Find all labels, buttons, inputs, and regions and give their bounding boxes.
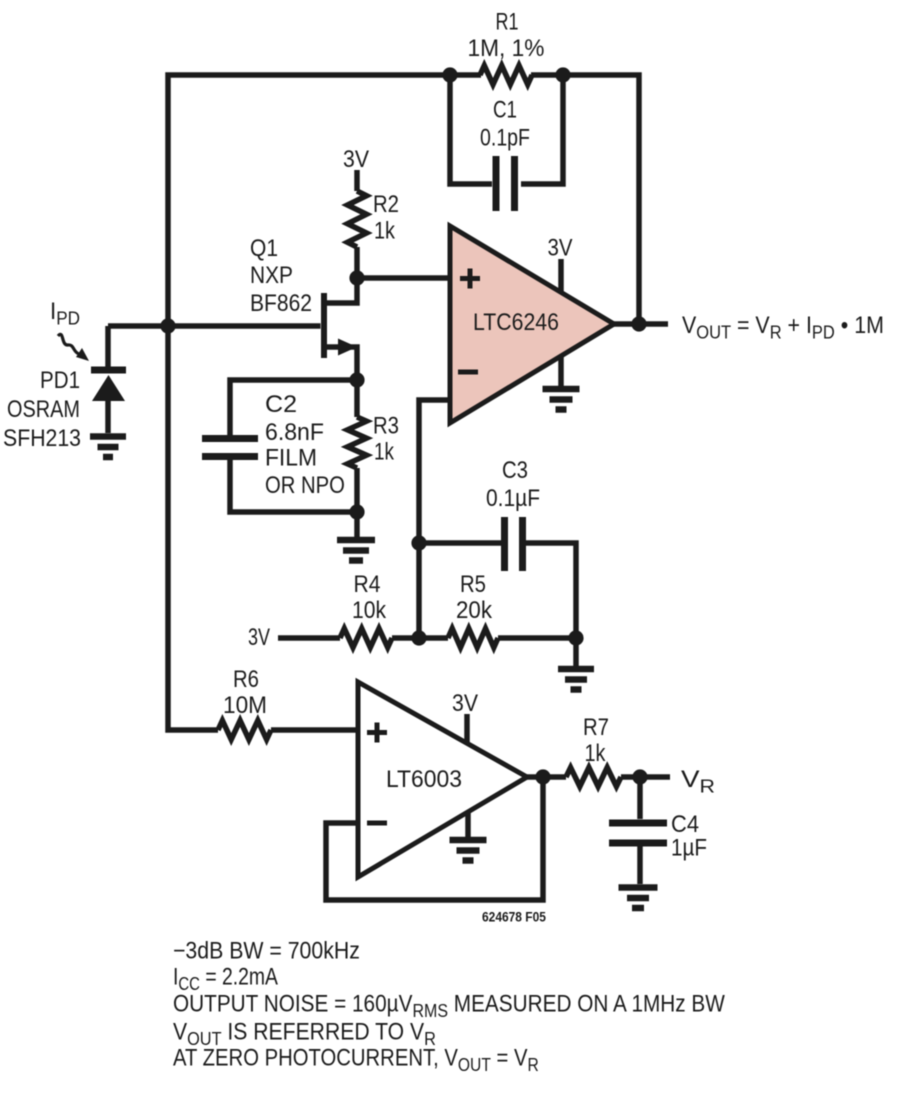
wire [357,275,450,281]
label LTC6246 [473,308,559,336]
svg-text:624678 F05: 624678 F05 [482,909,546,925]
resistor R4 [340,629,392,648]
svg-text:R5: R5 [460,570,486,597]
svg-text:0.1pF: 0.1pF [480,124,530,151]
svg-text:R7: R7 [583,713,609,740]
wire [108,323,168,329]
photodiode PD1 [91,370,126,433]
label 3V R2 [343,145,370,173]
label C3 [502,456,528,483]
label R5 [460,570,486,597]
resistor R1 [480,66,532,85]
node R4 R5 [411,630,426,645]
label R7 [583,713,609,740]
wire [271,727,358,733]
wire [573,638,579,666]
resistor R3 [348,417,367,468]
wire [105,326,111,367]
resistor R5 [448,629,498,648]
capacitor C2 [202,439,258,457]
wire drain [327,278,357,303]
node VR [632,769,647,784]
label OSRAM [7,395,80,422]
note line4 [173,1018,436,1049]
svg-text:OSRAM: OSRAM [7,395,80,422]
plus U1 [460,269,480,289]
ground C4 [619,888,658,909]
label VR [681,765,715,797]
label 1M 1% [468,34,545,61]
label 6.8nF [265,419,324,446]
svg-text:C1: C1 [493,96,517,123]
label 0.1pF [480,124,530,151]
svg-text:R4: R4 [354,571,381,598]
wire [637,777,643,819]
svg-text:3V: 3V [343,145,370,173]
label FILM [265,444,317,471]
svg-text:LTC6246: LTC6246 [473,308,559,336]
label BF862 [250,290,312,317]
note line5 [173,1044,539,1075]
minus U1 [458,370,478,375]
transistor Q1 channel bar [321,293,327,358]
op-amp U1 [450,226,614,423]
label 10M [223,691,267,718]
wire [278,635,340,641]
arrow light [58,334,89,361]
wire [614,321,668,327]
node R1 right [555,67,570,82]
node U2 out [535,769,550,784]
label 0.1uF [486,485,540,512]
svg-text:R3: R3 [373,412,399,439]
svg-text:3V: 3V [547,234,572,261]
svg-text:−3dB BW = 700kHz: −3dB BW = 700kHz [173,936,360,964]
svg-text:OUTPUT NOISE = 160µVRMS MEASUR: OUTPUT NOISE = 160µVRMS MEASURED ON A 1M… [173,990,726,1021]
capacitor C1 [496,156,515,211]
label C2 [265,391,297,417]
note line3 [173,990,726,1021]
svg-text:6.8nF: 6.8nF [265,419,324,446]
label 10k [352,597,387,624]
svg-text:BF862: BF862 [250,290,312,317]
wire [419,400,450,638]
ground U1 [543,389,580,410]
svg-text:NXP: NXP [250,262,293,289]
label IPD [50,297,80,328]
label R3 [373,412,399,439]
wire 3V stub U2 [464,714,470,742]
wire gate [168,323,321,329]
svg-text:10k: 10k [352,597,387,624]
ground U2 [450,840,487,861]
wire gnd stub U2 [465,812,471,837]
wire [354,380,360,417]
wire [168,75,481,730]
wire [521,75,563,184]
label OR NPO [265,471,345,498]
label R1 [496,9,519,35]
resistor R6 [218,721,271,740]
resistor R7 [566,768,621,787]
label 3V R4 [248,625,271,651]
svg-text:R1: R1 [496,9,519,35]
svg-text:1k: 1k [374,217,396,244]
label Q1 [250,235,278,262]
wire feedback [326,777,543,900]
wire [230,380,357,435]
node R3 bottom [349,504,364,519]
wire [392,635,448,641]
op-amp U2 [358,682,527,877]
svg-text:3V: 3V [248,625,271,651]
node photodiode [160,318,175,333]
label R3 1k [374,437,394,465]
wire gnd stub U1 [558,356,564,386]
svg-text:LT6003: LT6003 [386,766,462,793]
svg-text:10M: 10M [223,691,267,718]
svg-text:FILM: FILM [265,444,317,471]
plus U2 [367,723,387,743]
label 1uF [671,834,707,861]
svg-text:C3: C3 [502,456,528,483]
label VOUT equation [682,311,884,343]
node VOUT [631,316,646,331]
node R1 left [442,67,457,82]
ground R3 [337,540,375,561]
wire [498,635,576,641]
node R2-gate [349,270,364,285]
wire [354,170,360,191]
label LT6003 [386,766,462,793]
note line1 [173,936,360,964]
label 3V U2 [452,689,479,717]
wire [621,774,670,780]
svg-text:20k: 20k [456,596,492,623]
label 20k [456,596,492,623]
label C4 [671,810,699,837]
wire [637,847,643,885]
wire [354,468,360,537]
svg-text:1µF: 1µF [671,834,707,861]
label R2 [373,190,399,217]
resistor R2 [348,191,367,247]
wire [230,460,357,512]
wire [531,75,639,324]
node C3 tap [411,535,426,550]
label R4 [354,571,381,598]
label PD1 [40,367,80,394]
label NXP [250,262,293,289]
wire [527,774,566,780]
wire [450,75,492,184]
capacitor C4 [609,823,667,843]
svg-text:3V: 3V [452,689,479,717]
svg-text:SFH213: SFH213 [3,424,81,452]
label C1 [493,96,517,123]
label R6 [233,665,259,692]
note line2 [173,962,278,994]
svg-text:0.1µF: 0.1µF [486,485,540,512]
svg-text:1k: 1k [374,437,394,465]
wire source [327,347,357,380]
arrow Q1 source [338,339,357,356]
svg-text:R2: R2 [373,190,399,217]
svg-text:1M, 1%: 1M, 1% [468,34,545,61]
wire [419,540,501,546]
svg-text:1k: 1k [585,739,607,766]
capacitor C3 [505,517,523,571]
node R5 right [568,630,583,645]
wire [354,247,360,278]
label 3V U1 [547,234,572,261]
label SFH213 [3,424,81,452]
wire [526,543,576,638]
minus U2 [367,821,387,826]
svg-text:C2: C2 [265,391,297,417]
svg-text:OR NPO: OR NPO [265,471,345,498]
label fig number [482,909,546,925]
node Q1 source [349,372,364,387]
label R2 1k [374,217,396,244]
svg-text:PD1: PD1 [40,367,80,394]
svg-text:R6: R6 [233,665,259,692]
svg-text:Q1: Q1 [250,235,278,262]
ground PD1 [90,437,126,458]
label R7 1k [585,739,607,766]
ground R5 [558,669,594,690]
wire 3V stub U1 [558,259,564,291]
